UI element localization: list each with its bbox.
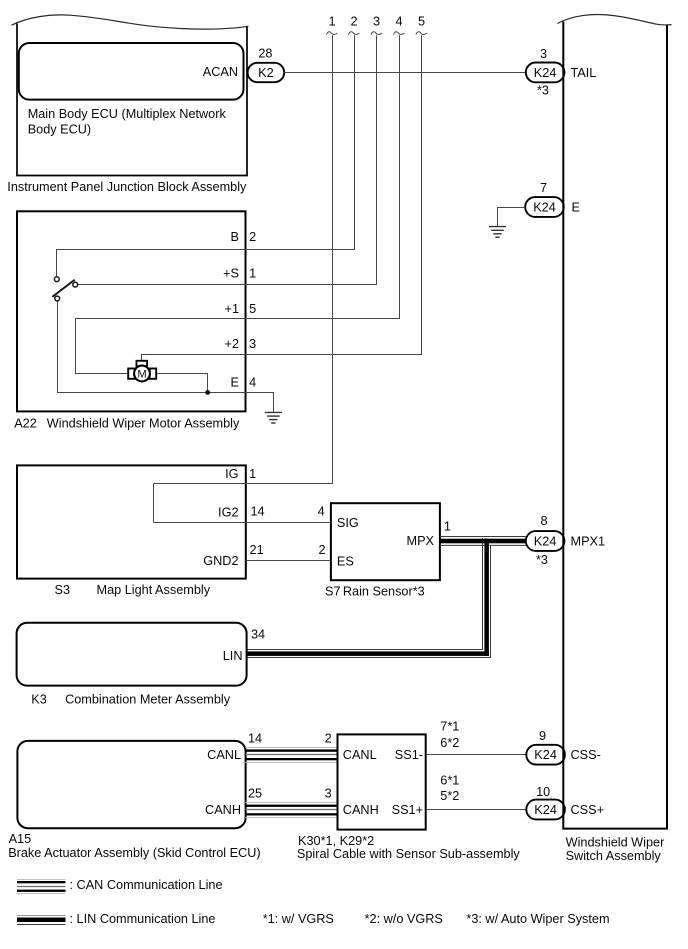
svg-text:CANH: CANH <box>205 803 241 817</box>
svg-text:3: 3 <box>249 337 256 351</box>
node junction dot on E wire <box>205 390 210 395</box>
wire reference 4 continuation tilde <box>393 32 404 35</box>
wire motor right to E junction <box>155 374 207 393</box>
pin CSS+ label <box>571 803 605 817</box>
pin 3 number (+2) <box>249 337 256 351</box>
svg-text:IG: IG <box>225 467 238 481</box>
svg-text:E: E <box>572 201 580 215</box>
svg-text:MPX: MPX <box>407 534 435 548</box>
A15 brake actuator assembly rounded box <box>17 741 245 828</box>
svg-text:1: 1 <box>249 467 256 481</box>
pin CSS- label <box>571 748 601 762</box>
wire vertical reference line 4 down to +1 <box>399 35 401 319</box>
svg-text:Switch Assembly: Switch Assembly <box>566 849 662 863</box>
svg-text:ES: ES <box>337 555 354 569</box>
svg-text:3: 3 <box>373 15 380 29</box>
pin 2 number (B) <box>249 230 256 244</box>
label K3 Combination Meter Assembly <box>31 693 230 707</box>
pin 7 number (E) <box>540 181 547 195</box>
svg-text:Combination Meter Assembly: Combination Meter Assembly <box>65 693 231 707</box>
pin +S label <box>223 267 239 281</box>
connector K24 E oval <box>525 197 564 217</box>
pin 25 number (CANH A15 side) <box>248 787 262 801</box>
svg-text:8: 8 <box>540 514 547 528</box>
svg-text:5: 5 <box>249 302 256 316</box>
wire LIN vertical branch outlines <box>483 538 491 658</box>
wire ACAN K2 to K24 TAIL <box>284 72 526 74</box>
pin IG label <box>225 467 238 481</box>
wire +2 to motor top <box>142 355 422 362</box>
svg-text:Main Body ECU (Multiplex Netwo: Main Body ECU (Multiplex Network <box>28 107 227 121</box>
connector K24 TAIL oval <box>526 63 565 83</box>
instrument panel junction block assembly box (torn-top outline) <box>12 15 249 176</box>
svg-text:M: M <box>137 369 146 381</box>
svg-text:: LIN Communication Line: : LIN Communication Line <box>70 912 216 926</box>
svg-text:1: 1 <box>444 520 451 534</box>
svg-text:K2: K2 <box>258 66 274 80</box>
svg-text:Spiral Cable with Sensor Sub-a: Spiral Cable with Sensor Sub-assembly <box>297 847 520 861</box>
pin 10 number (CSS+) <box>536 785 550 799</box>
wire reference 1 continuation tilde <box>326 32 337 35</box>
svg-text:K24: K24 <box>534 66 557 80</box>
pin E label <box>231 376 239 390</box>
svg-text:SIG: SIG <box>337 516 359 530</box>
svg-text:Map Light Assembly: Map Light Assembly <box>97 583 211 597</box>
pin 28 number <box>258 47 272 61</box>
svg-text:CSS+: CSS+ <box>571 803 605 817</box>
svg-text:A22: A22 <box>14 416 37 430</box>
svg-text:2: 2 <box>318 543 325 557</box>
pin LIN label <box>223 649 243 663</box>
spiral cable sub-assembly box <box>338 734 426 829</box>
wire IG2 to S7 SIG <box>154 522 332 524</box>
pin 2 number (CANL spiral side) <box>325 732 332 746</box>
svg-text:*1: w/ VGRS: *1: w/ VGRS <box>263 912 334 926</box>
label *3 under MPX1 connector <box>536 553 548 567</box>
svg-text:4: 4 <box>318 505 325 519</box>
svg-text:SS1-: SS1- <box>395 748 423 762</box>
svg-text:Instrument Panel Junction Bloc: Instrument Panel Junction Block Assembly <box>7 180 247 194</box>
svg-text:Brake Actuator Assembly (Skid: Brake Actuator Assembly (Skid Control EC… <box>8 846 260 860</box>
svg-text:1: 1 <box>328 15 335 29</box>
connector K2 oval <box>248 63 285 82</box>
label *3 under TAIL connector <box>537 84 549 98</box>
label Instrument Panel Junction Block Assembly <box>7 180 247 194</box>
pin GND2 label <box>203 554 238 568</box>
wire LIN MPX to K24 MPX1 (thick LIN line outlines) <box>440 537 526 546</box>
svg-text:CANH: CANH <box>343 803 379 817</box>
node 4 (reference line 4 label) <box>395 15 402 29</box>
wire reference 5 continuation tilde <box>416 32 427 35</box>
pin CANH label (A15) <box>205 803 241 817</box>
svg-text:5: 5 <box>418 15 425 29</box>
switch SW1 contacts and lever <box>52 277 77 301</box>
svg-text:6*2: 6*2 <box>440 736 459 750</box>
svg-text:K24: K24 <box>534 535 557 549</box>
wire CANH CAN communication line <box>245 803 337 818</box>
svg-text:14: 14 <box>250 505 264 519</box>
K3 combination meter assembly rounded box <box>17 623 247 686</box>
svg-text:Rain Sensor*3: Rain Sensor*3 <box>343 584 425 598</box>
wire LIN MPX thick bar <box>440 539 526 544</box>
legend CAN communication line symbol <box>17 880 66 894</box>
legend LIN text <box>70 912 216 926</box>
ground (switch E) <box>489 227 506 238</box>
node 5 (reference line 5 label) <box>418 15 425 29</box>
svg-text:*3: *3 <box>537 84 549 98</box>
pin 2 number (ES S7 side) <box>318 543 325 557</box>
svg-text:CANL: CANL <box>207 748 241 762</box>
connector K24 MPX1 oval <box>526 531 565 551</box>
svg-text:S3: S3 <box>55 583 71 597</box>
pin 1 number (MPX) <box>444 520 451 534</box>
svg-text:4: 4 <box>395 15 402 29</box>
pin MPX label <box>407 534 435 548</box>
pin SS1+ label <box>392 803 423 817</box>
svg-text:GND2: GND2 <box>203 554 238 568</box>
pin ACAN label <box>203 65 238 79</box>
wire +1 loop to motor left <box>76 319 400 374</box>
svg-text:2: 2 <box>350 15 357 29</box>
wire CANL CAN communication line <box>245 748 337 763</box>
node 2 (reference line 2 label) <box>350 15 357 29</box>
wire LIN K3 thick bar <box>247 651 489 656</box>
pin ES label <box>337 555 354 569</box>
label K30 K29 spiral cable <box>297 834 520 861</box>
svg-text:14: 14 <box>248 732 262 746</box>
pin 6*1 5*2 numbers (SS1+) <box>440 773 459 803</box>
connector K24 CSS+ oval <box>526 800 565 820</box>
node 3 (reference line 3 label) <box>373 15 380 29</box>
pin SS1- label <box>395 748 423 762</box>
label A22 Windshield Wiper Motor Assembly <box>14 416 240 430</box>
svg-text:CANL: CANL <box>343 748 377 762</box>
pin TAIL label <box>571 66 597 80</box>
svg-text:+1: +1 <box>225 302 239 316</box>
svg-text:+2: +2 <box>225 337 239 351</box>
pin 14 number (CANL A15 side) <box>248 732 262 746</box>
pin E label <box>572 201 580 215</box>
pin CANH label (spiral) <box>343 803 379 817</box>
pin CANL label (A15) <box>207 748 241 762</box>
ground (A22 E pin) <box>265 412 282 423</box>
svg-text:TAIL: TAIL <box>571 66 597 80</box>
svg-text:2: 2 <box>325 732 332 746</box>
pin 14 number (IG2 S3 side) <box>250 505 264 519</box>
pin 4 number (E) <box>249 376 256 390</box>
svg-text:3: 3 <box>540 47 547 61</box>
pin 4 number (SIG S7 side) <box>318 505 325 519</box>
svg-text:*3: w/ Auto Wiper System: *3: w/ Auto Wiper System <box>466 912 609 926</box>
ECU U1 Main Body ECU inner rounded box <box>19 43 244 100</box>
pin IG2 label <box>218 506 238 520</box>
wire SS1+ to K24 CSS+ <box>426 809 527 811</box>
pin 3 number (TAIL) <box>540 47 547 61</box>
svg-text:CSS-: CSS- <box>571 748 601 762</box>
pin 1 number (IG) <box>249 467 256 481</box>
wire B from switch to reference 2 <box>57 250 356 277</box>
pin 7*1 6*2 numbers (SS1-) <box>440 719 459 750</box>
pin 9 number (CSS-) <box>539 729 546 743</box>
label S7 Rain Sensor*3 <box>325 584 425 598</box>
svg-text:A15: A15 <box>9 832 32 846</box>
svg-text:34: 34 <box>251 628 265 642</box>
svg-text:7: 7 <box>540 181 547 195</box>
svg-text:3: 3 <box>325 787 332 801</box>
svg-text:*2: w/o VGRS: *2: w/o VGRS <box>365 912 443 926</box>
svg-text:Windshield Wiper Motor Assembl: Windshield Wiper Motor Assembly <box>47 416 240 430</box>
pin MPX1 label <box>571 535 606 549</box>
svg-text:K24: K24 <box>534 748 557 762</box>
svg-text:LIN: LIN <box>223 649 243 663</box>
svg-text:E: E <box>231 376 239 390</box>
S3 map light assembly box <box>17 465 246 578</box>
motor M1 symbol <box>128 361 156 382</box>
wire +S from switch to reference 3 <box>78 284 378 286</box>
pin B label <box>231 230 239 244</box>
svg-text:SS1+: SS1+ <box>392 803 423 817</box>
wire LIN vertical thick bar <box>484 539 489 656</box>
connector K24 CSS- oval <box>526 745 565 765</box>
wire vertical reference line 1 down to IG <box>332 35 334 484</box>
node 1 (reference line 1 label) <box>328 15 335 29</box>
pin SIG label <box>337 516 359 530</box>
svg-text:K24: K24 <box>533 201 556 215</box>
pin +2 label <box>225 337 239 351</box>
svg-text:Windshield Wiper: Windshield Wiper <box>566 836 665 850</box>
wire IG to reference 1 <box>154 483 334 485</box>
pin 21 number (GND2 S3 side) <box>250 543 264 557</box>
legend LIN communication line symbol <box>17 916 66 925</box>
wire vertical reference line 2 down to B <box>354 35 356 250</box>
label Main Body ECU <box>28 107 227 137</box>
svg-text:9: 9 <box>539 729 546 743</box>
wire LIN K3 horizontal outlines <box>247 650 491 658</box>
svg-text:25: 25 <box>248 787 262 801</box>
svg-text:1: 1 <box>249 267 256 281</box>
svg-text:K3: K3 <box>31 693 47 707</box>
svg-text:10: 10 <box>536 785 550 799</box>
svg-text:Body ECU): Body ECU) <box>28 122 91 136</box>
note *1 w/ VGRS <box>263 912 334 926</box>
svg-text:B: B <box>231 230 239 244</box>
pin 1 number (+S) <box>249 267 256 281</box>
svg-text:7*1: 7*1 <box>440 719 459 733</box>
pin CANL label (spiral) <box>343 748 377 762</box>
svg-text:6*1: 6*1 <box>440 773 459 787</box>
pin +1 label <box>225 302 239 316</box>
svg-text:ACAN: ACAN <box>203 65 238 79</box>
wire K24 E to ground <box>498 208 526 227</box>
svg-text:K24: K24 <box>534 803 557 817</box>
svg-text:28: 28 <box>258 47 272 61</box>
label Windshield Wiper Switch Assembly <box>566 836 665 864</box>
wire vertical reference line 5 down to +2 <box>421 35 423 355</box>
svg-text:2: 2 <box>249 230 256 244</box>
pin 8 number (MPX1) <box>540 514 547 528</box>
label A15 Brake Actuator Assembly <box>8 832 260 860</box>
wire reference 3 continuation tilde <box>371 32 382 35</box>
svg-text:5*2: 5*2 <box>440 789 459 803</box>
windshield wiper switch assembly box (torn-top outline) <box>558 15 672 829</box>
svg-text:S7: S7 <box>325 584 341 598</box>
svg-text:MPX1: MPX1 <box>571 535 606 549</box>
pin 5 number (+1) <box>249 302 256 316</box>
wire internal IG to IG2 tie <box>153 484 155 523</box>
svg-text:21: 21 <box>250 543 264 557</box>
note *3 w/ Auto Wiper System <box>466 912 609 926</box>
pin 3 number (CANH spiral side) <box>325 787 332 801</box>
S7 rain sensor box <box>331 503 440 580</box>
A22 windshield wiper motor assembly box <box>17 211 246 411</box>
svg-text:+S: +S <box>223 267 239 281</box>
label S3 Map Light Assembly <box>55 583 211 597</box>
wire SS1- to K24 CSS- <box>426 754 527 756</box>
legend CAN text <box>70 878 223 892</box>
wire vertical reference line 3 down to +S <box>376 35 378 285</box>
svg-text:: CAN Communication Line: : CAN Communication Line <box>70 878 223 892</box>
svg-text:IG2: IG2 <box>218 506 238 520</box>
wire reference 2 continuation tilde <box>348 32 359 35</box>
pin 34 number (LIN) <box>251 628 265 642</box>
wire E from switch bottom to external ground <box>58 301 274 412</box>
note *2 w/o VGRS <box>365 912 443 926</box>
svg-text:4: 4 <box>249 376 256 390</box>
svg-text:*3: *3 <box>536 553 548 567</box>
wire GND2 to S7 ES <box>246 560 331 562</box>
